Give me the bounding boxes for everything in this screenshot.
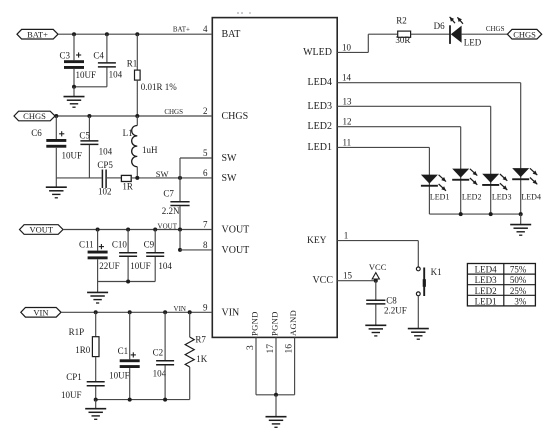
svg-text:1K: 1K xyxy=(196,354,208,364)
node junction C3 bottom xyxy=(72,85,76,89)
wire R7 top lead xyxy=(189,312,191,337)
node junction VIN/R7 xyxy=(188,310,192,314)
wire AGND pin16 vertical xyxy=(294,337,296,394)
wire LED1 vertical xyxy=(428,147,430,214)
svg-text:SW: SW xyxy=(222,153,238,164)
svg-text:C8: C8 xyxy=(386,295,397,305)
svg-text:VOUT: VOUT xyxy=(222,225,250,236)
node junction VOUT/C9 xyxy=(153,228,157,232)
table row LED3 50% xyxy=(475,275,527,285)
wire ground stem (VOUT) xyxy=(97,282,99,293)
wire LED bottom rail xyxy=(429,213,520,215)
node junction VIN/R1P xyxy=(94,310,98,314)
svg-text:17: 17 xyxy=(266,344,276,354)
wire pin10 vertical jog xyxy=(367,34,369,52)
plus sign C3 xyxy=(76,52,81,57)
table brightness levels frame xyxy=(467,264,535,306)
svg-text:LED1: LED1 xyxy=(308,142,332,153)
node junction VIN/C2 xyxy=(163,310,167,314)
svg-text:D6: D6 xyxy=(434,21,445,31)
wire pin15 VCC net xyxy=(337,280,376,282)
wire C6 bottom lead xyxy=(55,148,57,178)
wire LED2 vertical xyxy=(460,127,462,214)
capacitor C4 104 xyxy=(98,63,116,67)
capacitor CP1 10UF xyxy=(87,382,105,386)
svg-text:25%: 25% xyxy=(510,286,527,296)
svg-text:BAT+: BAT+ xyxy=(173,26,190,34)
wire pin1 KEY horizontal xyxy=(337,240,418,242)
svg-text:C5: C5 xyxy=(79,131,90,141)
ground (C8) xyxy=(365,325,386,336)
capacitor C3 10UF polarized xyxy=(64,60,84,69)
diode D6 LED xyxy=(450,17,463,44)
svg-text:SW: SW xyxy=(222,173,238,184)
svg-text:3%: 3% xyxy=(514,296,527,306)
svg-text:16: 16 xyxy=(285,344,295,354)
wire SW/ground rail left xyxy=(56,177,101,179)
wire C11 bottom lead xyxy=(97,259,99,281)
svg-text:R1: R1 xyxy=(127,58,138,68)
table row LED4 75% xyxy=(475,265,527,275)
svg-text:13: 13 xyxy=(343,96,353,106)
wire C1 top lead xyxy=(129,312,131,359)
svg-text:104: 104 xyxy=(153,368,167,378)
wire D6 to CHGS tag xyxy=(462,33,508,35)
node junction BAT+/C3 xyxy=(72,32,76,36)
capacitor C11 22UF polarized xyxy=(88,251,108,260)
wire C9 top lead xyxy=(154,230,156,253)
svg-text:LED2: LED2 xyxy=(462,193,482,202)
wire VOUT net xyxy=(63,229,212,231)
wire C7 top lead xyxy=(179,178,181,201)
svg-text:1R: 1R xyxy=(122,182,133,192)
node junction VIN/C1 xyxy=(128,310,132,314)
svg-text:C11: C11 xyxy=(79,240,94,250)
ground (LED cathodes) xyxy=(510,225,531,236)
svg-text:R7: R7 xyxy=(195,335,206,345)
node junction GND rail xyxy=(274,393,278,397)
svg-text:104: 104 xyxy=(158,261,172,271)
wire C10 top lead xyxy=(127,230,129,253)
node junction VOUT/C7 xyxy=(178,228,182,232)
resistor R1P 1R0 xyxy=(92,337,99,357)
svg-text:10UF: 10UF xyxy=(109,371,130,381)
wire C11 top lead xyxy=(97,230,99,251)
wire BAT+ net xyxy=(58,33,212,35)
switch K1 xyxy=(416,267,426,296)
wire C2 top lead xyxy=(164,312,166,360)
plus sign C1 xyxy=(131,352,136,357)
wire pin11 LED1 net xyxy=(337,146,429,148)
node junction LED2 rail xyxy=(459,212,463,216)
node junction LED4 rail xyxy=(519,212,523,216)
node junction BAT+/R1 xyxy=(135,32,139,36)
capacitor C10 10UF xyxy=(119,253,137,256)
wire C3 bottom lead xyxy=(73,69,75,87)
wire CP5 to 1R xyxy=(106,177,121,179)
svg-text:C9: C9 xyxy=(144,240,155,250)
capacitor C6 10UF polarized xyxy=(46,139,66,148)
wire CP1 bottom lead xyxy=(95,386,97,399)
svg-text:VIN: VIN xyxy=(222,307,240,318)
svg-text:10UF: 10UF xyxy=(61,390,82,400)
wire R1P to CP1 xyxy=(95,357,97,382)
table row LED1 3% xyxy=(475,296,527,306)
wire C3 top lead xyxy=(73,34,75,60)
svg-text:PGND: PGND xyxy=(250,311,260,336)
svg-text:LED3: LED3 xyxy=(475,275,497,285)
wire pin13 LED3 net xyxy=(337,105,491,107)
svg-text:LED3: LED3 xyxy=(492,193,512,202)
svg-text:C7: C7 xyxy=(163,189,174,199)
wire ground stem (IC) xyxy=(275,395,277,417)
wire SW net to IC xyxy=(131,177,212,179)
wire ground stem (VIN) xyxy=(95,400,97,409)
wire ground stem (C3) xyxy=(73,87,75,97)
IC U1 body xyxy=(212,18,337,338)
svg-text:30R: 30R xyxy=(395,35,410,45)
svg-text:1R0: 1R0 xyxy=(75,345,91,355)
wire C8 bottom lead xyxy=(375,305,377,326)
svg-text:CP1: CP1 xyxy=(66,372,82,382)
node junction VOUT/C10 xyxy=(126,228,130,232)
svg-text:10: 10 xyxy=(342,42,352,52)
node junction VOUT/C11 xyxy=(96,228,100,232)
svg-text:3: 3 xyxy=(246,345,256,350)
svg-text:14: 14 xyxy=(342,73,352,83)
wire C3-C4 bottom link xyxy=(74,86,107,88)
wire C4 bottom lead xyxy=(106,68,108,87)
diode LED3 xyxy=(482,174,507,190)
svg-text:8: 8 xyxy=(203,240,208,250)
connector tag BAT+ xyxy=(17,29,58,39)
svg-text:VIN: VIN xyxy=(174,305,186,313)
svg-text:6: 6 xyxy=(203,168,208,178)
capacitor C5 104 xyxy=(80,141,98,145)
diode LED2 xyxy=(452,169,477,185)
node junction BAT+/C4 xyxy=(105,32,109,36)
svg-text:CHGS: CHGS xyxy=(486,25,505,33)
svg-text:VCC: VCC xyxy=(369,262,387,272)
svg-text:LED3: LED3 xyxy=(308,101,332,112)
connector tag CHGS (right) xyxy=(507,29,541,39)
wire pin5 stub xyxy=(180,157,212,159)
svg-text:1: 1 xyxy=(344,231,349,241)
node junction LED3 rail xyxy=(489,212,493,216)
capacitor C2 104 xyxy=(156,361,174,365)
svg-text:2: 2 xyxy=(203,106,208,116)
svg-text:R1P: R1P xyxy=(69,327,85,337)
wire CHGS net xyxy=(55,115,212,117)
inductor L1 1uH xyxy=(132,126,138,167)
wire R7 bottom lead xyxy=(189,367,191,400)
capacitor C9 104 xyxy=(146,253,164,256)
svg-text:75%: 75% xyxy=(510,265,527,275)
node junction CHGS/C6 xyxy=(54,114,58,118)
wire VIN bottom rail xyxy=(96,399,190,401)
wire K1 top lead xyxy=(417,241,419,267)
svg-text:0.01R 1%: 0.01R 1% xyxy=(141,82,178,92)
svg-text:12: 12 xyxy=(343,117,352,127)
wire R1 bottom lead xyxy=(136,80,138,116)
wire K1 bottom lead xyxy=(417,296,419,329)
wire pin14 LED4 net xyxy=(337,82,521,84)
node junction VIN rail/R1P xyxy=(94,398,98,402)
svg-text:R2: R2 xyxy=(396,15,407,25)
svg-text:C4: C4 xyxy=(93,50,104,60)
svg-text:LED4: LED4 xyxy=(475,265,497,275)
diode LED1 xyxy=(421,175,446,191)
wire L1 top lead xyxy=(136,116,138,126)
wire C8 top lead xyxy=(375,281,377,300)
connector tag CHGS (left) xyxy=(14,111,55,121)
diode LED4 xyxy=(512,168,537,184)
wire PGND pin17 vertical xyxy=(275,337,277,394)
svg-text:LED1: LED1 xyxy=(430,193,450,202)
ground (VIN filter) xyxy=(85,409,106,420)
svg-text:10UF: 10UF xyxy=(130,261,151,271)
node junction CHGS/L1 xyxy=(135,114,139,118)
svg-text:5: 5 xyxy=(203,148,208,158)
svg-text:SW: SW xyxy=(156,169,169,179)
wire C6 top lead xyxy=(55,116,57,139)
ground (BAT+ filter) xyxy=(64,97,85,108)
wire C10 bottom lead xyxy=(127,257,129,282)
resistor 1R series xyxy=(121,175,131,181)
svg-text:WLED: WLED xyxy=(303,47,332,58)
svg-text:LED2: LED2 xyxy=(475,286,497,296)
resistor R1 0.01R xyxy=(135,70,141,80)
connector tag VIN xyxy=(21,308,61,318)
wire pin8 horizontal xyxy=(180,249,212,251)
svg-text:CHGS: CHGS xyxy=(513,29,536,39)
svg-text:104: 104 xyxy=(109,69,123,79)
svg-text:2.2N: 2.2N xyxy=(162,206,180,216)
wire C1 bottom lead xyxy=(129,368,131,400)
ground (VOUT filter) xyxy=(87,292,108,303)
svg-text:1uH: 1uH xyxy=(142,145,158,155)
wire R1P top lead xyxy=(95,312,97,336)
wire pin8 vertical xyxy=(179,230,181,250)
wire GND rail xyxy=(256,394,295,396)
svg-text:VOUT: VOUT xyxy=(29,225,53,235)
node junction pin8 xyxy=(178,248,182,252)
svg-text:LED1: LED1 xyxy=(475,296,497,306)
svg-text:BAT+: BAT+ xyxy=(27,29,48,39)
svg-text:VOUT: VOUT xyxy=(158,222,178,230)
svg-text:K1: K1 xyxy=(431,267,442,277)
wire pin12 LED2 net xyxy=(337,126,461,128)
svg-text:PGND: PGND xyxy=(270,311,280,336)
wire R2 to D6 xyxy=(411,33,450,35)
wire C7 bottom lead xyxy=(179,206,181,229)
wire R1 top lead xyxy=(136,34,138,70)
svg-text:CHGS: CHGS xyxy=(222,111,249,122)
svg-text:15: 15 xyxy=(343,271,353,281)
wire LED4 vertical xyxy=(520,83,522,214)
svg-text:10UF: 10UF xyxy=(62,150,83,160)
svg-text:C2: C2 xyxy=(153,347,164,357)
wire C4 top lead xyxy=(106,34,108,62)
svg-text:LED4: LED4 xyxy=(521,193,541,202)
plus sign C11 xyxy=(99,244,104,249)
capacitor C7 2.2N xyxy=(170,202,189,206)
svg-text:VCC: VCC xyxy=(312,275,333,286)
node junction SW/L1 xyxy=(135,176,139,180)
wire C5 bottom lead xyxy=(88,145,90,178)
wire ground stem (C6) xyxy=(55,178,57,187)
connector tag VOUT xyxy=(20,225,64,235)
svg-text:AGND: AGND xyxy=(288,310,298,336)
table row LED2 25% xyxy=(475,286,527,296)
wire pin5 vertical xyxy=(179,158,181,178)
svg-text:L1: L1 xyxy=(123,128,133,138)
node junction VIN rail/C2 xyxy=(163,398,167,402)
wire pin10 horizontal xyxy=(337,51,368,53)
capacitor C8 2.2UF xyxy=(366,300,385,304)
svg-text:104: 104 xyxy=(99,147,113,157)
svg-text:11: 11 xyxy=(343,137,352,147)
wire C5 top lead xyxy=(88,116,90,140)
wire VOUT bottom rail xyxy=(98,281,156,283)
capacitor C1 10UF polarized xyxy=(120,359,140,368)
svg-text:LED2: LED2 xyxy=(308,121,332,132)
node junction VIN rail/C1 xyxy=(128,398,132,402)
wire PGND pin3 vertical xyxy=(255,337,257,394)
svg-text:LED4: LED4 xyxy=(308,77,332,88)
ground (K1) xyxy=(408,329,429,340)
svg-text:CHGS: CHGS xyxy=(164,108,183,116)
wire ground stem (LED) xyxy=(520,214,522,225)
svg-text:LED: LED xyxy=(464,37,482,47)
power symbol VCC xyxy=(372,273,379,281)
svg-text:4: 4 xyxy=(203,24,208,34)
capacitor CP5 102 series xyxy=(102,170,106,189)
wire LED3 vertical xyxy=(490,106,492,214)
wire C9 bottom lead xyxy=(154,257,156,282)
svg-text:102: 102 xyxy=(98,187,112,197)
svg-text:CHGS: CHGS xyxy=(23,111,46,121)
svg-text:C1: C1 xyxy=(118,346,129,356)
ground (IC GND) xyxy=(266,417,287,428)
node junction SW/C7 xyxy=(178,176,182,180)
node junction VCC/C8 xyxy=(374,279,378,283)
ground (CHGS filter) xyxy=(46,187,67,198)
svg-text:KEY: KEY xyxy=(307,236,327,246)
svg-text:9: 9 xyxy=(203,302,208,312)
svg-text:50%: 50% xyxy=(510,275,527,285)
node junction VOUT rail/C10 xyxy=(126,280,130,284)
svg-text:C6: C6 xyxy=(31,128,42,138)
svg-text:VOUT: VOUT xyxy=(222,245,250,256)
svg-text:C10: C10 xyxy=(112,240,128,250)
wire L1 bottom lead xyxy=(136,167,138,178)
svg-text:VIN: VIN xyxy=(33,308,48,318)
svg-text:10UF: 10UF xyxy=(76,70,97,80)
svg-text:C3: C3 xyxy=(60,50,71,60)
node junction CHGS/C5 xyxy=(87,114,91,118)
wire to R2 xyxy=(368,33,397,35)
svg-text:22UF: 22UF xyxy=(99,261,120,271)
svg-text:BAT: BAT xyxy=(222,29,241,40)
resistor R2 30R xyxy=(398,31,411,37)
svg-text:CP5: CP5 xyxy=(97,160,113,170)
svg-text:2.2UF: 2.2UF xyxy=(384,305,407,315)
plus sign C6 xyxy=(59,131,64,136)
svg-text:7: 7 xyxy=(203,220,208,230)
resistor R7 1K zigzag xyxy=(185,337,194,367)
wire C2 bottom lead xyxy=(164,365,166,399)
wire VIN net xyxy=(61,311,212,313)
